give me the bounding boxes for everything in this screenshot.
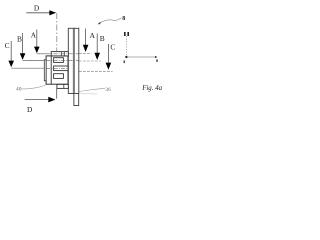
coordinate axis arrowhead — [155, 56, 157, 58]
section arrow B right stem — [96, 34, 98, 54]
section arrow A left stem — [36, 30, 38, 48]
connector inner wall — [50, 56, 52, 84]
section line C-C right (dashed) — [79, 70, 113, 72]
section line B-B left — [23, 60, 47, 62]
leader line for 8 — [99, 18, 122, 23]
section arrow C left head — [8, 61, 14, 68]
section arrow D top — [49, 10, 56, 15]
bottom flange divider — [63, 84, 65, 88]
coordinate axis top tick 2 — [127, 32, 129, 36]
coordinate axis horizontal — [126, 56, 155, 58]
leader arrowhead for 8 — [98, 22, 101, 24]
section line B-B right (dashed) — [79, 60, 101, 62]
svg-text:36: 36 — [105, 87, 111, 93]
section line D vertical (dash-dot) — [56, 13, 58, 51]
svg-text:B: B — [17, 35, 22, 44]
svg-text:D: D — [34, 3, 40, 12]
section line D bottom vertical — [56, 88, 58, 98]
faint surface line right of plate bottom — [79, 93, 97, 95]
section arrow A right stem — [85, 29, 87, 46]
section line A-A through part (dash-dot) — [46, 53, 79, 55]
svg-text:B: B — [100, 34, 105, 43]
section line A-A right (dashed) — [79, 53, 91, 55]
top flange divider 2 — [63, 52, 65, 56]
plate 36 outline — [68, 28, 79, 93]
coordinate axis top tick 1 — [124, 32, 126, 36]
section arrow A left head — [34, 47, 40, 54]
top flange divider 1 — [60, 52, 62, 56]
plate 36 center laminate line 1 — [72, 28, 74, 93]
section line C-C left — [11, 67, 46, 69]
section arrow C right stem — [107, 44, 109, 62]
connector top tab — [54, 58, 64, 63]
connector top flange box — [51, 52, 68, 56]
plate 36 center laminate line 2 — [73, 28, 75, 93]
connector bottom flange box — [57, 84, 68, 88]
section line D top horizontal — [26, 12, 50, 14]
section arrow C left stem — [10, 41, 12, 61]
connector left latch bar — [44, 60, 46, 81]
connector bottom tab — [54, 74, 64, 79]
section arrow B right head — [94, 53, 100, 60]
svg-text:C: C — [110, 43, 115, 52]
svg-text:A: A — [31, 30, 37, 39]
coordinate axis small label left — [124, 61, 125, 64]
section line D bottom horizontal — [25, 99, 50, 101]
section arrow C right head — [106, 63, 112, 70]
svg-text:8: 8 — [122, 16, 125, 22]
section arrow B left head — [20, 53, 26, 60]
leader line for 36 — [79, 89, 105, 92]
section arrow B left stem — [22, 33, 24, 53]
svg-text:C: C — [5, 41, 10, 50]
section line A-A left — [37, 53, 46, 55]
section line C-C through connector (dash-dot) — [46, 67, 68, 69]
svg-text:Fig. 4a: Fig. 4a — [141, 85, 162, 92]
coordinate axis origin dot — [125, 56, 127, 58]
section arrow A right head — [83, 45, 89, 52]
leader line for 40 — [22, 85, 46, 89]
coordinate axis vertical dotted — [125, 36, 127, 57]
section line B-B through part (dash-dot) — [46, 60, 79, 62]
plate lower tab — [74, 94, 79, 106]
svg-text:40: 40 — [16, 86, 22, 92]
svg-text:D: D — [27, 105, 33, 114]
coordinate axis small label right — [156, 59, 157, 61]
svg-text:A: A — [90, 31, 96, 40]
section arrow D bottom — [48, 97, 55, 103]
connector 40 body — [46, 56, 68, 84]
connector middle tab — [54, 66, 68, 71]
